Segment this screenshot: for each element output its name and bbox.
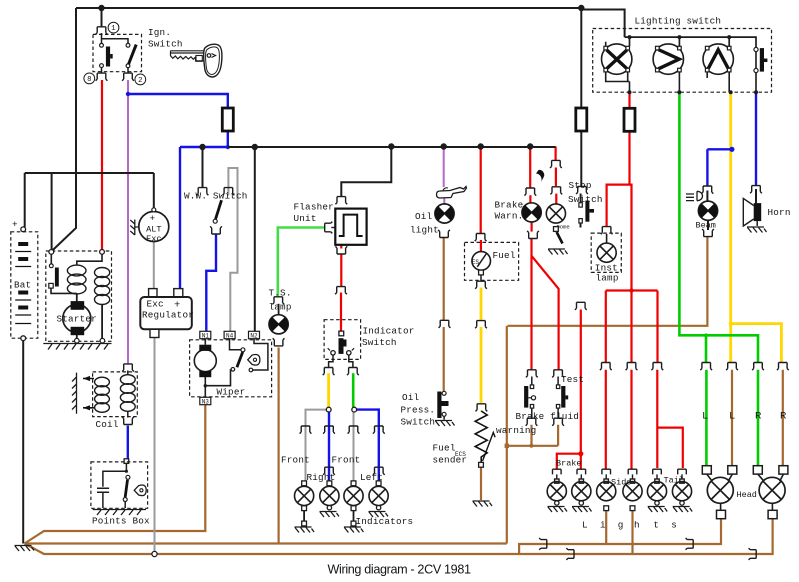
svg-text:Unit: Unit bbox=[294, 213, 317, 224]
svg-text:Switch: Switch bbox=[148, 39, 183, 50]
svg-text:T.S.: T.S. bbox=[269, 288, 292, 299]
svg-text:Brake: Brake bbox=[556, 459, 582, 469]
svg-text:Wiper: Wiper bbox=[217, 386, 246, 397]
svg-text:Oil: Oil bbox=[415, 211, 433, 222]
svg-text:Switch: Switch bbox=[401, 417, 436, 428]
svg-text:Indicator: Indicator bbox=[363, 326, 415, 337]
svg-text:Fuel: Fuel bbox=[433, 443, 456, 454]
svg-text:ALT: ALT bbox=[146, 225, 161, 235]
svg-text:Coil: Coil bbox=[96, 419, 119, 430]
svg-text:lamp: lamp bbox=[596, 273, 619, 284]
svg-text:Flasher: Flasher bbox=[294, 202, 334, 213]
svg-text:N2: N2 bbox=[250, 332, 258, 339]
svg-text:Press.: Press. bbox=[401, 405, 436, 416]
svg-text:W.W. Switch: W.W. Switch bbox=[184, 191, 248, 202]
svg-text:Bat: Bat bbox=[14, 280, 31, 291]
svg-text:Lighting switch: Lighting switch bbox=[635, 16, 722, 27]
svg-text:Switch: Switch bbox=[568, 194, 603, 205]
svg-text:light: light bbox=[410, 225, 439, 236]
svg-text:Front: Front bbox=[281, 455, 310, 466]
svg-text:Points Box: Points Box bbox=[92, 516, 150, 527]
svg-text:Horn: Horn bbox=[768, 207, 791, 218]
svg-text:N1: N1 bbox=[202, 332, 210, 339]
svg-text:L: L bbox=[702, 411, 708, 423]
svg-text:Indicators: Indicators bbox=[356, 516, 414, 527]
svg-text:Exc: Exc bbox=[147, 299, 164, 310]
svg-text:Test: Test bbox=[561, 374, 584, 385]
svg-text:Switch: Switch bbox=[362, 337, 397, 348]
svg-text:Exc: Exc bbox=[146, 234, 161, 244]
svg-text:Warn.: Warn. bbox=[495, 211, 524, 222]
svg-text:2: 2 bbox=[138, 77, 142, 85]
svg-text:Fuel: Fuel bbox=[493, 250, 516, 261]
svg-text:N3: N3 bbox=[202, 398, 210, 405]
svg-text:+: + bbox=[12, 219, 18, 230]
svg-text:Beam: Beam bbox=[696, 221, 716, 231]
svg-text:Regulator: Regulator bbox=[142, 310, 194, 321]
svg-text:Brake: Brake bbox=[495, 200, 524, 211]
svg-text:Left: Left bbox=[360, 472, 383, 483]
svg-text:Head: Head bbox=[737, 490, 757, 500]
svg-text:1: 1 bbox=[111, 25, 116, 33]
svg-text:R: R bbox=[755, 411, 762, 423]
svg-text:ES: ES bbox=[472, 259, 480, 266]
svg-text:8: 8 bbox=[87, 76, 91, 84]
svg-text:sender: sender bbox=[433, 455, 468, 466]
svg-text:Brake fluid: Brake fluid bbox=[516, 411, 580, 422]
svg-text:lamp: lamp bbox=[269, 302, 292, 313]
svg-text:N4: N4 bbox=[226, 332, 234, 339]
svg-text:L: L bbox=[729, 411, 735, 423]
svg-text:Stop: Stop bbox=[569, 180, 592, 191]
svg-text:Starter: Starter bbox=[57, 314, 97, 325]
svg-text:Wiring diagram - 2CV 1981: Wiring diagram - 2CV 1981 bbox=[328, 563, 471, 577]
svg-text:Right: Right bbox=[307, 472, 336, 483]
svg-text:Oil: Oil bbox=[402, 392, 420, 403]
svg-text:Front: Front bbox=[332, 455, 361, 466]
svg-text:warning: warning bbox=[496, 425, 536, 436]
svg-text:R: R bbox=[780, 411, 787, 423]
svg-text:+: + bbox=[150, 213, 156, 224]
svg-text:Ign.: Ign. bbox=[148, 27, 171, 38]
